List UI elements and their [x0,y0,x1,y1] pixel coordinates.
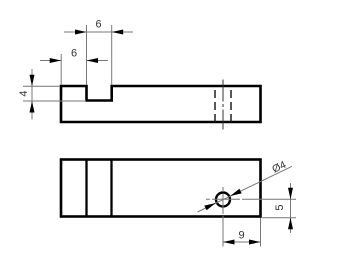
hole circle [216,193,230,207]
dimension 9: extension line right (rect right edge) [260,218,262,247]
dimension lower 6: dimension line left tail [40,60,61,62]
dimension upper 6: extension line right (notch right edge) [111,25,113,85]
notch edge line right, bottom view [110,160,112,217]
dimension 4: dimension line [31,69,33,120]
svg-text:6: 6 [71,48,77,60]
dimension 4: top arrowhead [30,75,35,87]
notch edge line left, bottom view [85,160,87,217]
dimension lower 6: dimension line right tail [87,60,109,62]
svg-text:4: 4 [18,90,30,96]
dimension 9: right arrowhead [249,240,261,245]
dimension 5: dimension line [290,183,292,233]
svg-text:6: 6 [95,19,101,31]
top view outline (bar with notch) [61,86,261,122]
dimension upper 6: left arrowhead [75,30,87,35]
dimension 9: left arrowhead [223,240,235,245]
hidden hole line left [214,86,216,122]
dimension 5: bottom arrowhead [288,218,293,230]
hole horizontal centerline / extension for 5 [206,198,296,200]
hole vertical centerline / extension for 9 [222,187,224,247]
dimension 9: dimension line [223,241,261,243]
dimension lower 6: left arrowhead [50,58,62,63]
dimension lower 6: extension line (bar left edge) [60,54,62,85]
bottom view outline (rectangle) [61,160,261,217]
dimension upper 6: extension line left (notch left edge) [86,25,88,85]
dimension upper 6: dimension line [64,31,133,33]
dimension lower 6: right arrowhead [87,58,99,63]
dimension 5: top arrowhead [288,188,293,200]
dimension 4: extension line bottom (notch bottom) [23,100,86,102]
centerline of hole, top view [222,80,224,130]
dimension upper 6: right arrowhead [112,30,124,35]
svg-text:9: 9 [238,230,244,242]
hidden hole line right [230,86,232,122]
dimension 4: extension line top (bar top edge) [23,85,60,87]
diameter leader upper-right arrowhead [230,189,242,196]
diameter leader lower-left arrowhead [204,203,216,210]
svg-text:5: 5 [274,204,286,210]
dimension 5: extension line bottom (rect bottom edge) [262,217,296,219]
dimension 4: bottom arrowhead [30,101,35,113]
diameter leader line [198,166,293,212]
